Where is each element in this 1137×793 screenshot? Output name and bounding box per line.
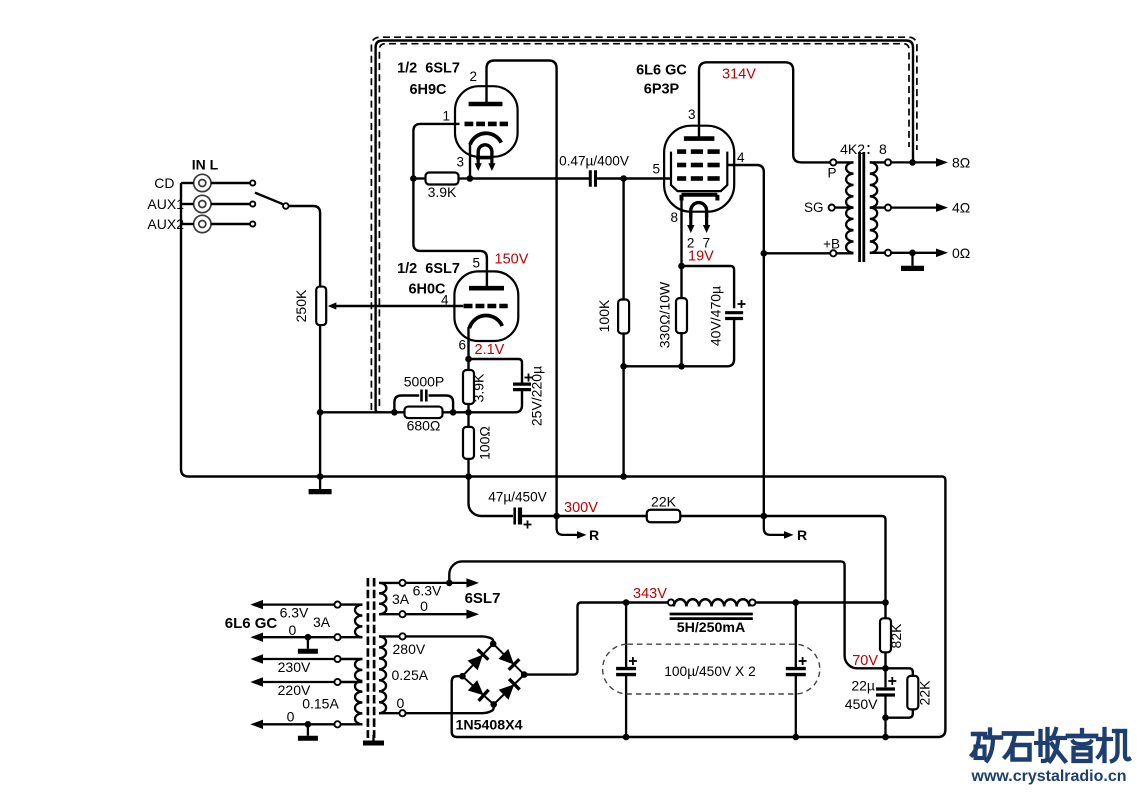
wire mains 220V lead: [341, 681, 363, 683]
svg-text:150V: 150V: [495, 252, 529, 268]
arrow 6L6 heater 0: [250, 633, 334, 642]
label 6.3V right: [413, 583, 442, 599]
label 0.47u/400V: [559, 154, 629, 169]
svg-text:6P3P: 6P3P: [644, 82, 680, 98]
wire switch pole to volume pot: [289, 206, 321, 287]
label 0 HV: [397, 695, 405, 711]
svg-text:70V: 70V: [852, 653, 878, 669]
svg-text:100K: 100K: [596, 299, 612, 332]
svg-text:314V: 314V: [722, 67, 756, 83]
wire 3.9K right to cathode node: [459, 177, 470, 179]
wire R arrow 2 bend: [764, 516, 788, 535]
PT mains terminal 230V: [334, 656, 340, 662]
svg-text:6.3V: 6.3V: [280, 605, 309, 621]
label 4ohm: [952, 200, 970, 216]
svg-text:280V: 280V: [393, 641, 426, 657]
label 0ohm: [952, 245, 970, 261]
pot wiper arrow: [328, 302, 337, 309]
svg-text:6.3V: 6.3V: [413, 583, 442, 599]
label 5000P: [404, 374, 444, 390]
capacitor 100u/450V first: [616, 669, 636, 675]
switch contact AUX2: [250, 221, 255, 226]
resistor 330ohm/10W: [676, 298, 687, 333]
label 680ohm: [407, 418, 441, 434]
pin 4 label V1 screen: [737, 150, 745, 165]
PT 6L6-heater terminal 6.3V: [334, 602, 340, 608]
label 250K: [293, 289, 309, 322]
label 230V: [278, 659, 311, 675]
svg-text:5: 5: [652, 162, 660, 177]
label 220V: [278, 682, 311, 698]
svg-text:1: 1: [442, 109, 450, 124]
wire coupling cap to 6L6 grid pin 5: [596, 177, 673, 179]
V1 cathode bracket bar: [682, 193, 718, 197]
wire U1 cathode to coupling cap: [470, 177, 590, 179]
node heater elevation tap: [446, 580, 453, 587]
label 5H/250mA: [677, 620, 746, 636]
voltage label 70V: [852, 653, 878, 669]
wire 82K top: [884, 603, 886, 619]
svg-text:0Ω: 0Ω: [952, 245, 970, 261]
node 6L6 grid: [620, 175, 627, 182]
svg-text:19V: 19V: [688, 249, 714, 265]
V1 heater arrow pin2: [687, 215, 694, 233]
plus sign cap1: [629, 657, 637, 665]
wire 6SL7 heater 0 lead: [379, 613, 399, 615]
ground symbol PT core: [363, 735, 384, 743]
capacitor 5000P: [422, 390, 427, 402]
V1 grid dash row 2: [677, 163, 720, 168]
label 22K divider: [917, 680, 933, 706]
node mains 0 ground: [305, 721, 312, 728]
potentiometer 250K body: [316, 287, 326, 326]
svg-text:4: 4: [737, 150, 745, 165]
ground symbol main bus: [309, 477, 332, 492]
svg-text:230V: 230V: [278, 659, 311, 675]
node cap2 bottom rail: [793, 734, 800, 741]
pin 5 label V1 grid: [652, 162, 660, 177]
OPT secondary winding: [870, 162, 877, 252]
svg-text:R: R: [589, 527, 599, 543]
label 3A left: [313, 614, 331, 630]
label 100ohm: [477, 426, 493, 460]
PT mains terminal 220V: [334, 679, 340, 685]
U2 grid dashes pin4: [464, 304, 508, 309]
svg-text:343V: 343V: [633, 586, 667, 602]
svg-text:82K: 82K: [888, 623, 904, 649]
svg-text:6L6 GC: 6L6 GC: [225, 615, 278, 632]
label 100u/450V X 2: [664, 664, 756, 679]
svg-text:3: 3: [456, 155, 464, 170]
svg-text:300V: 300V: [564, 500, 598, 516]
PT HV terminal 280V: [399, 633, 405, 639]
PT HV terminal 0: [399, 710, 405, 716]
svg-text:1/2 6SL7: 1/2 6SL7: [397, 61, 460, 77]
wire HV 0 to bridge AC bottom: [406, 704, 494, 713]
output arrow 4ohm: [891, 203, 948, 212]
capacitor 100u/450V second: [786, 669, 806, 675]
wire CD jack to switch contact: [211, 182, 250, 184]
svg-text:40V/470µ: 40V/470µ: [708, 286, 724, 346]
svg-text:0.15A: 0.15A: [302, 696, 339, 712]
node divider to 0V rail: [882, 734, 889, 741]
wire pot bottom to ground bus: [319, 325, 321, 477]
choke core bars: [670, 614, 753, 619]
plus sign 47u/450V: [524, 521, 532, 529]
svg-text:330Ω/10W: 330Ω/10W: [657, 281, 673, 348]
resistor 100ohm: [463, 427, 474, 459]
wire cap2 bottom lead: [795, 676, 797, 737]
node bridge AC bottom: [490, 701, 497, 708]
label 450V: [845, 696, 878, 712]
label 0 right-heater: [420, 598, 428, 614]
arrow to right channel R1: [577, 531, 587, 539]
svg-text:1N5408X4: 1N5408X4: [455, 718, 522, 734]
svg-text:680Ω: 680Ω: [407, 418, 441, 434]
label 40V/470u: [708, 286, 724, 346]
OPT secondary tap 0ohm: [885, 250, 891, 256]
shield inner dashed border: [379, 44, 909, 406]
wire ground bus (input to PSU 0V rail): [181, 183, 945, 737]
wire cap1 top lead: [625, 603, 627, 668]
bridge diamond: [462, 644, 524, 705]
wire 22u top lead: [884, 668, 886, 687]
wire secondary to 8ohm tap: [870, 161, 885, 163]
pin 4 label U2 grid: [441, 293, 449, 308]
U1 cathode lead pin 3: [469, 143, 471, 179]
voltage label 314V: [722, 67, 756, 83]
wire mains 230V lead: [341, 658, 363, 660]
diode D3 (AC- to AC bottom): [468, 680, 489, 701]
arrow 6SL7 heater 6.3V: [406, 578, 479, 587]
node feedback network right: [450, 409, 457, 416]
node cap2 top: [793, 599, 800, 606]
svg-text:3.9K: 3.9K: [471, 373, 487, 402]
svg-text:4Ω: 4Ω: [952, 200, 970, 216]
PT 6SL7 heater winding: [379, 583, 386, 614]
wire 6SL7 heater 6.3V lead: [379, 582, 399, 584]
svg-text:25V/220µ: 25V/220µ: [529, 366, 545, 426]
wire 100K bottom to ground bus: [622, 334, 624, 477]
label 280V: [393, 641, 426, 657]
wire ground bus to 47u cap: [469, 477, 514, 517]
U1 heater arch: [478, 145, 492, 158]
svg-text:22µ: 22µ: [851, 678, 875, 694]
svg-text:0: 0: [420, 598, 428, 614]
label AUX2: [147, 216, 184, 232]
svg-text:6: 6: [458, 338, 466, 353]
input jack CD: [194, 174, 211, 191]
pin 5 label U2 plate: [472, 256, 480, 271]
capacitor 0.47u/400V: [590, 170, 595, 187]
svg-text:8: 8: [670, 210, 678, 225]
U1 heater arrow left: [475, 158, 482, 171]
choke terminal right: [749, 599, 755, 605]
label 6L6 GC bottom: [225, 615, 278, 632]
resistor 22K dropper: [647, 510, 681, 523]
arrow 6L6 heater 6.3V: [250, 600, 334, 609]
arrow 6SL7 heater 0: [406, 610, 479, 619]
wire AUX2 jack to switch contact: [211, 223, 250, 225]
voltage label 150V: [495, 252, 529, 268]
wire mains 0 lead: [341, 723, 363, 725]
watermark logo CJK (crystalradio): [972, 729, 1129, 761]
label SG: [804, 200, 824, 215]
node screen/+B tap: [761, 250, 768, 257]
OPT terminal SG: [829, 205, 835, 211]
node 70V: [882, 665, 889, 672]
arrow to right channel R2: [784, 531, 794, 539]
node screen feed: [761, 513, 768, 520]
resistor 3.9K grid: [426, 173, 459, 185]
svg-text:IN L: IN L: [192, 157, 219, 173]
wire secondary to 4ohm tap: [870, 206, 885, 208]
label +B: [823, 237, 840, 252]
label 22u: [851, 678, 875, 694]
U1 plate bar: [469, 102, 503, 107]
wire +B tap to OPT +B terminal: [764, 252, 830, 254]
U1 heater crossbar: [476, 156, 494, 159]
PT 6SL7-heater terminal 0: [399, 611, 405, 617]
label 6.3V left: [280, 605, 309, 621]
resistor 680ohm: [405, 407, 443, 419]
PT mains winding: [355, 659, 362, 724]
triode U2 6H0C envelope: [454, 271, 518, 341]
node U1 grid / 6H0C plate: [410, 175, 417, 182]
wire 82K bottom to 70V: [884, 652, 886, 668]
wire AUX2 jack to ground bus: [181, 223, 194, 225]
svg-text:22K: 22K: [651, 494, 677, 510]
U1 cathode arc: [470, 133, 501, 144]
voltage label 19V: [688, 249, 714, 265]
PT core: [368, 578, 374, 738]
node V1 cathode 19V: [678, 263, 685, 270]
svg-text:P: P: [827, 166, 836, 181]
wire U1 plate pin2 to B+ 300V: [487, 61, 557, 517]
OPT secondary tap 8ohm: [885, 159, 891, 165]
label 0.15A: [302, 696, 339, 712]
wire 47u to 300V node: [522, 515, 557, 517]
label 0 left-heater: [289, 622, 297, 638]
dashed outline 100u capacitor pair: [603, 644, 820, 694]
pin 3 label V1 plate: [688, 107, 696, 122]
svg-text:450V: 450V: [845, 696, 878, 712]
wire cap2 top lead: [795, 603, 797, 668]
label 330ohm/10W: [657, 281, 673, 348]
label 3.9K grid: [428, 184, 457, 200]
OPT primary winding: [846, 162, 853, 252]
svg-text:AUX1: AUX1: [147, 196, 184, 212]
diode D2 (AC top to +): [498, 649, 519, 670]
label 25V/220u: [529, 366, 545, 426]
svg-text:3A: 3A: [313, 614, 331, 630]
label 8ohm: [952, 155, 970, 171]
node cap1 bottom rail: [623, 734, 630, 741]
node choke output: [882, 599, 889, 606]
switch contact CD: [250, 180, 255, 185]
wire 5000P right leg: [429, 396, 454, 413]
wire 3.9K to bias node: [467, 404, 469, 412]
svg-text:SG: SG: [804, 200, 824, 215]
OPT terminal P: [830, 159, 836, 165]
svg-text:1/2 6SL7: 1/2 6SL7: [397, 261, 460, 277]
wire 19V node to 330ohm: [680, 266, 682, 299]
plus sign 22u: [888, 677, 896, 685]
input jack AUX1: [194, 195, 211, 212]
label R right-channel 2: [797, 527, 807, 543]
svg-text:6SL7: 6SL7: [465, 590, 501, 607]
wire choke to 82K node: [756, 601, 886, 603]
V1 grid dash row 1: [677, 149, 720, 154]
wire 70V to 22K top: [886, 668, 913, 676]
label 6SL7: [465, 590, 501, 607]
wire heater elevation 6.3V to 70V node: [449, 561, 885, 668]
label 3.9K cathode: [471, 373, 487, 402]
wire feedback node line: [320, 411, 404, 413]
svg-text:0.47µ/400V: 0.47µ/400V: [559, 154, 629, 169]
switch pole: [283, 203, 289, 209]
node 6H0C cathode pin6: [465, 356, 472, 363]
output arrow 8ohm: [891, 158, 948, 167]
node ground-bus at 100ohm: [465, 473, 472, 480]
svg-text:2: 2: [469, 69, 477, 84]
wire secondary to 0ohm tap: [870, 252, 885, 254]
node 100K/cathode-return: [620, 363, 627, 370]
wire 22K to screen node and down to choke output: [680, 516, 885, 603]
voltage label 343V: [633, 586, 667, 602]
svg-text:2.1V: 2.1V: [475, 342, 505, 358]
wire 22K bottom loop: [886, 709, 913, 717]
label CD: [154, 175, 174, 191]
node 6L6 heater 0 ground: [305, 634, 312, 641]
capacitor 47u/450V: [515, 508, 520, 525]
arrow mains 0: [250, 720, 334, 729]
svg-text:250K: 250K: [293, 289, 309, 322]
arrow mains 230V: [250, 654, 334, 663]
OPT terminal +B: [830, 250, 836, 256]
resistor 100K grid leak: [618, 300, 629, 334]
wire HV 0 lead: [379, 712, 399, 714]
wire 100ohm to ground bus: [467, 459, 469, 477]
label P: [827, 166, 836, 181]
label 1/2 6SL7 lower: [397, 261, 460, 277]
V1 grid dash row 3: [677, 176, 720, 181]
wire P terminal to primary: [836, 161, 853, 163]
wire 300V node to 22K: [557, 515, 647, 517]
svg-text:R: R: [797, 527, 807, 543]
pin 6 label U2 cathode: [458, 338, 466, 353]
node feedback network left: [391, 409, 398, 416]
svg-text:0: 0: [397, 695, 405, 711]
svg-text:6H9C: 6H9C: [409, 82, 447, 98]
wire cap1 bottom lead: [625, 676, 627, 737]
label 47u/450V: [488, 490, 546, 505]
U1 grid dashes pin1: [465, 122, 509, 127]
switch blade: [255, 193, 283, 205]
node 330ohm bottom: [678, 363, 685, 370]
V1 plate bar: [684, 136, 715, 141]
svg-text:5: 5: [472, 256, 480, 271]
label 4K2:8: [840, 141, 887, 157]
U2 cathode lead pin 6: [467, 327, 469, 359]
V1 heater arch: [691, 203, 707, 217]
plus sign 25V/220u: [525, 374, 533, 382]
diode D1 (AC- to AC top): [468, 649, 489, 670]
voltage label 2.1V: [475, 342, 505, 358]
capacitor 25V/220u bypass: [513, 384, 531, 390]
ground symbol 6L6 heater: [298, 637, 318, 651]
label 82K: [888, 623, 904, 649]
svg-text:+B: +B: [823, 237, 840, 252]
wire 100K top: [622, 179, 624, 300]
svg-text:47µ/450V: 47µ/450V: [488, 490, 546, 505]
wire 470u cap bottom to return: [624, 319, 735, 366]
wire B+ line cap1 to choke: [626, 601, 668, 603]
V1 cathode bracket right foot: [715, 195, 719, 201]
pin 3 label U1 cathode: [456, 155, 464, 170]
label 100K: [596, 299, 612, 332]
wire HV 280V to bridge AC top: [406, 636, 494, 643]
node 0ohm ground: [909, 250, 916, 257]
wire 680ohm right to cathode node: [442, 411, 468, 413]
V1 cathode lead pin 8: [680, 199, 682, 266]
capacitor 40V/470u: [725, 313, 743, 319]
wire bypass cap bottom to bias node: [469, 390, 523, 412]
inductor choke 5H/250mA winding: [674, 599, 749, 606]
ground symbol speaker 0ohm: [901, 253, 924, 269]
node 6H0C cathode bias: [465, 409, 472, 416]
label 6H0C: [408, 282, 446, 298]
node 22u/22K bottom: [882, 714, 889, 721]
PT HV winding: [379, 636, 386, 713]
label 0 mains: [287, 709, 295, 725]
wire cathode node to 3.9K: [467, 359, 469, 370]
svg-text:5000P: 5000P: [404, 374, 444, 390]
wire feedback from 8-ohm tap (shielded): [376, 41, 913, 413]
wire pot wiper to 6H0C grid pin 4: [334, 305, 463, 307]
node ground-bus at 100K: [620, 473, 627, 480]
svg-text:3: 3: [688, 107, 696, 122]
label R right-channel 1: [589, 527, 599, 543]
pin 2 label V1 heater: [687, 236, 695, 251]
node 8ohm output / feedback: [909, 159, 916, 166]
svg-text:0: 0: [289, 622, 297, 638]
wire R arrow 1 bend: [557, 516, 581, 535]
wire +B terminal to primary: [836, 252, 853, 254]
capacitor 22u/450V: [876, 689, 895, 695]
svg-text:8Ω: 8Ω: [952, 155, 970, 171]
watermark url www.crystalradio.cn: [971, 768, 1127, 785]
PT 6L6-heater terminal 0: [334, 634, 340, 640]
wire node to 3.9K left: [413, 177, 425, 179]
V1 heater arrow pin7: [703, 215, 710, 233]
choke terminal left: [668, 599, 674, 605]
wire 6L6 heater 0 lead: [341, 636, 363, 638]
node bridge AC top: [490, 641, 497, 648]
label 1N5408X4: [455, 718, 522, 734]
svg-text:4: 4: [441, 293, 449, 308]
label 1/2 6SL7 upper: [397, 61, 460, 77]
V1 cathode bracket left foot: [680, 195, 684, 201]
ground symbol mains 0: [298, 724, 318, 738]
label 3A right: [392, 591, 410, 607]
wire 19V node to 470u cap: [682, 266, 735, 308]
resistor 3.9K cathode: [463, 370, 474, 404]
wire 6L6 heater 6.3V lead: [341, 603, 363, 605]
svg-text:100µ/450V X 2: 100µ/450V X 2: [664, 664, 756, 679]
wire SG terminal to primary: [835, 206, 854, 208]
svg-text:AUX2: AUX2: [147, 216, 184, 232]
